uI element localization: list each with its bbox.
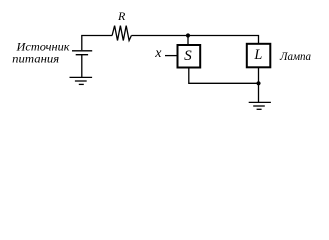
wire x lead to switch S — [165, 55, 177, 57]
svg-text:питания: питания — [12, 51, 59, 65]
wire lamp bottom to ground — [258, 67, 260, 102]
battery BT1 (power source cell) — [72, 51, 92, 55]
switch S (box) — [178, 45, 201, 68]
lamp L (box) — [247, 44, 270, 68]
junction node (switch return to lamp return) — [256, 81, 260, 85]
wire battery bottom to ground — [81, 55, 83, 77]
wire battery top to resistor — [82, 36, 112, 51]
svg-text:R: R — [117, 9, 126, 23]
svg-text:x: x — [154, 46, 162, 61]
svg-text:L: L — [253, 47, 262, 63]
node label "Источник питания" (power source) — [12, 40, 70, 66]
wire resistor to lamp branch (top rail) — [131, 36, 258, 44]
wire switch S bottom to junction — [189, 69, 259, 84]
junction node (top rail to switch) — [186, 33, 190, 37]
svg-text:S: S — [184, 47, 192, 64]
svg-text:Лампа: Лампа — [279, 49, 311, 63]
wire junction down to switch S — [187, 36, 189, 45]
ground (right) — [249, 102, 271, 109]
resistor R1 zigzag — [112, 26, 131, 41]
ground (left) — [70, 77, 93, 84]
